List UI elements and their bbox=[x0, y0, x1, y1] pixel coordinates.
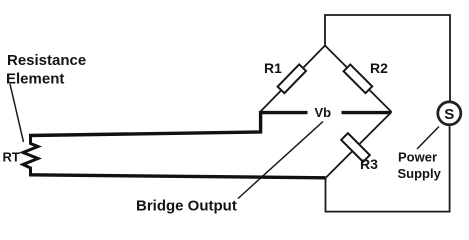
svg-text:Element: Element bbox=[6, 71, 64, 88]
svg-text:Vb: Vb bbox=[315, 105, 332, 120]
svg-text:R2: R2 bbox=[370, 60, 388, 76]
svg-text:Bridge Output: Bridge Output bbox=[136, 198, 237, 215]
svg-text:Supply: Supply bbox=[398, 166, 442, 181]
svg-text:S: S bbox=[444, 106, 454, 123]
svg-text:R1: R1 bbox=[264, 60, 282, 76]
svg-text:Resistance: Resistance bbox=[7, 52, 86, 69]
svg-text:Power: Power bbox=[398, 150, 437, 165]
svg-text:RT: RT bbox=[3, 150, 20, 165]
svg-text:R3: R3 bbox=[360, 156, 378, 172]
